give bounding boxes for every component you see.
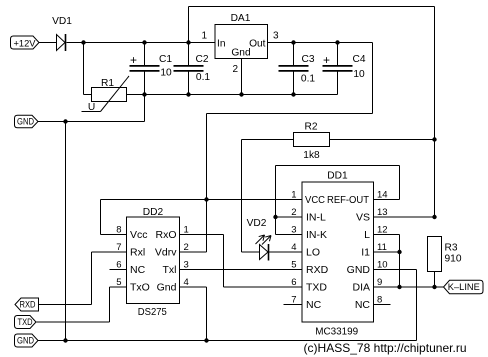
svg-text:DD1: DD1 xyxy=(327,171,348,182)
svg-text:5: 5 xyxy=(291,260,296,271)
svg-text:Gnd: Gnd xyxy=(231,48,251,59)
svg-text:LO: LO xyxy=(306,247,320,259)
svg-text:RXD: RXD xyxy=(306,264,329,276)
svg-text:1: 1 xyxy=(201,31,207,42)
svg-text:Rxl: Rxl xyxy=(130,247,145,259)
svg-text:8: 8 xyxy=(377,295,382,306)
svg-text:+: + xyxy=(323,53,330,67)
svg-text:U: U xyxy=(88,102,95,113)
svg-text:10: 10 xyxy=(160,68,172,79)
svg-text:14: 14 xyxy=(377,190,388,201)
svg-text:R3: R3 xyxy=(445,243,458,254)
svg-text:1: 1 xyxy=(184,225,189,236)
svg-text:7: 7 xyxy=(291,295,296,306)
svg-text:DS275: DS275 xyxy=(138,307,167,318)
svg-text:NC: NC xyxy=(130,264,146,276)
svg-text:9: 9 xyxy=(377,277,382,288)
svg-text:10: 10 xyxy=(377,260,388,271)
svg-text:NC: NC xyxy=(306,299,322,311)
svg-text:L: L xyxy=(364,229,370,241)
svg-text:+12V: +12V xyxy=(14,39,37,50)
svg-text:I1: I1 xyxy=(361,247,370,259)
svg-text:3: 3 xyxy=(184,260,189,271)
svg-text:VD1: VD1 xyxy=(52,16,72,27)
svg-text:DD2: DD2 xyxy=(143,207,164,218)
svg-text:VS: VS xyxy=(356,212,370,224)
svg-text:VCC: VCC xyxy=(305,195,325,206)
svg-text:R1: R1 xyxy=(101,78,114,89)
svg-text:13: 13 xyxy=(377,207,388,218)
svg-text:1: 1 xyxy=(291,190,296,201)
svg-text:0.1: 0.1 xyxy=(301,74,315,85)
svg-text:In: In xyxy=(217,39,226,50)
svg-text:DIA: DIA xyxy=(352,282,370,294)
svg-text:MC33199: MC33199 xyxy=(315,327,358,338)
svg-text:12: 12 xyxy=(377,225,388,236)
svg-text:910: 910 xyxy=(445,254,462,265)
svg-text:DA1: DA1 xyxy=(231,13,251,24)
svg-text:Out: Out xyxy=(249,39,266,50)
svg-text:TXD: TXD xyxy=(306,282,327,294)
svg-text:10: 10 xyxy=(353,69,365,80)
svg-text:3: 3 xyxy=(273,31,279,42)
svg-text:7: 7 xyxy=(116,242,121,253)
svg-text:8: 8 xyxy=(116,225,121,236)
svg-text:GND: GND xyxy=(17,336,34,346)
svg-text:2: 2 xyxy=(232,64,238,75)
svg-text:C3: C3 xyxy=(301,54,314,65)
svg-text:Gnd: Gnd xyxy=(157,282,177,294)
svg-text:4: 4 xyxy=(291,242,296,253)
svg-text:GND: GND xyxy=(17,117,34,127)
svg-text:5: 5 xyxy=(116,277,121,288)
svg-text:IN-L: IN-L xyxy=(306,212,326,224)
svg-text:6: 6 xyxy=(291,277,296,288)
svg-text:6: 6 xyxy=(116,260,121,271)
svg-text:0.1: 0.1 xyxy=(196,72,210,83)
svg-text:C2: C2 xyxy=(195,54,208,65)
svg-text:TxO: TxO xyxy=(130,282,150,294)
svg-text:4: 4 xyxy=(184,277,189,288)
svg-text:1k8: 1k8 xyxy=(303,150,320,161)
svg-text:R2: R2 xyxy=(304,122,317,133)
svg-text:NC: NC xyxy=(355,299,371,311)
svg-text:K–LINE: K–LINE xyxy=(448,282,480,292)
svg-text:Txl: Txl xyxy=(163,264,177,276)
svg-text:Vdrv: Vdrv xyxy=(155,247,177,259)
svg-text:RXD: RXD xyxy=(20,300,36,310)
svg-text:3: 3 xyxy=(291,225,296,236)
svg-text:TXD: TXD xyxy=(18,317,33,327)
svg-text:Vcc: Vcc xyxy=(130,229,148,241)
svg-text:+: + xyxy=(130,53,137,67)
svg-text:GND: GND xyxy=(347,264,371,276)
svg-text:REF-OUT: REF-OUT xyxy=(327,195,369,206)
svg-text:RxO: RxO xyxy=(156,229,177,241)
svg-text:2: 2 xyxy=(291,207,296,218)
svg-text:C1: C1 xyxy=(159,54,172,65)
svg-text:VD2: VD2 xyxy=(247,218,267,229)
svg-text:IN-K: IN-K xyxy=(306,229,327,241)
svg-text:C4: C4 xyxy=(352,54,365,65)
svg-text:(c)HASS_78 http://chiptuner.ru: (c)HASS_78 http://chiptuner.ru xyxy=(304,341,467,355)
svg-text:11: 11 xyxy=(377,242,387,253)
svg-text:2: 2 xyxy=(184,242,189,253)
